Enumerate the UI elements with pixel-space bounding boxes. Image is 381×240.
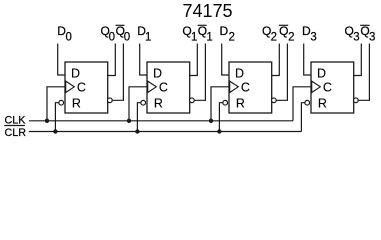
svg-text:CLK: CLK bbox=[5, 115, 27, 127]
inversion bubble U2 R input bbox=[141, 100, 146, 105]
junction CLR rail / U3 reset bbox=[217, 129, 221, 133]
wire Qbar2 output bbox=[276, 44, 287, 101]
svg-text:3: 3 bbox=[369, 31, 375, 43]
junction CLR rail / U1 reset bbox=[53, 129, 57, 133]
wire Q1 output bbox=[190, 44, 198, 76]
svg-text:R: R bbox=[154, 97, 163, 111]
wire CLK to U4 C pin bbox=[293, 87, 311, 121]
wire Q3 output bbox=[354, 44, 362, 76]
svg-text:D: D bbox=[220, 24, 229, 38]
D flip-flop U3 bbox=[229, 62, 272, 113]
node D2 label bbox=[220, 24, 235, 43]
wire CLR to U1 R pin bbox=[55, 103, 59, 132]
inversion bubble U4 Qbar output bbox=[354, 98, 359, 103]
svg-text:74175: 74175 bbox=[183, 1, 233, 21]
node Q1 label bbox=[182, 24, 197, 43]
wire CLK to U2 C pin bbox=[129, 87, 147, 121]
svg-text:R: R bbox=[236, 97, 245, 111]
svg-text:Q: Q bbox=[279, 24, 288, 38]
wire CLR to U2 R pin bbox=[137, 103, 141, 132]
D flip-flop U1 bbox=[65, 62, 108, 113]
wire D2 input bbox=[222, 44, 229, 76]
junction CLR rail / U2 reset bbox=[135, 129, 139, 133]
svg-text:2: 2 bbox=[288, 31, 294, 43]
wire CLR to U3 R pin bbox=[219, 103, 223, 132]
svg-text:0: 0 bbox=[65, 31, 71, 43]
node D1 label bbox=[137, 24, 151, 43]
node Q0 label bbox=[101, 24, 116, 43]
svg-text:C: C bbox=[241, 80, 250, 94]
inversion bubble U3 Qbar output bbox=[272, 98, 277, 103]
wire Q0 output bbox=[108, 44, 116, 76]
svg-text:2: 2 bbox=[271, 31, 277, 43]
wire D1 input bbox=[140, 44, 147, 76]
svg-text:CLR: CLR bbox=[5, 127, 27, 139]
wire D0 input bbox=[58, 44, 65, 76]
wire Qbar1 output bbox=[194, 44, 205, 101]
inversion bubble U4 R input bbox=[305, 100, 310, 105]
svg-text:C: C bbox=[159, 80, 168, 94]
svg-text:C: C bbox=[323, 80, 332, 94]
D flip-flop U2 bbox=[147, 62, 190, 113]
node Qbar0 label bbox=[116, 24, 131, 43]
wire Qbar3 output bbox=[358, 44, 369, 101]
node Qbar1 label bbox=[198, 24, 213, 43]
svg-text:1: 1 bbox=[145, 31, 151, 43]
node D3 label bbox=[302, 24, 317, 43]
node CLR label (active low) bbox=[4, 126, 26, 139]
svg-text:R: R bbox=[318, 97, 327, 111]
D flip-flop U4 bbox=[311, 62, 354, 113]
node D0 label bbox=[57, 24, 72, 43]
svg-text:D: D bbox=[317, 66, 326, 80]
wire CLR rail bbox=[29, 131, 302, 133]
inversion bubble U1 R input bbox=[59, 100, 64, 105]
svg-text:D: D bbox=[235, 66, 244, 80]
junction CLK rail / U3 clock bbox=[209, 119, 213, 123]
svg-text:R: R bbox=[72, 97, 81, 111]
svg-text:3: 3 bbox=[310, 31, 316, 43]
svg-text:2: 2 bbox=[229, 31, 235, 43]
wire D3 input bbox=[304, 44, 311, 76]
node Qbar3 label bbox=[360, 24, 375, 43]
wire CLR to U4 R pin bbox=[301, 103, 305, 132]
wire CLK to U1 C pin bbox=[47, 87, 65, 121]
node Q2 label bbox=[262, 24, 277, 43]
svg-text:0: 0 bbox=[109, 31, 115, 43]
svg-text:1: 1 bbox=[206, 31, 212, 43]
svg-text:D: D bbox=[71, 66, 80, 80]
junction CLK rail / U1 clock bbox=[45, 119, 49, 123]
svg-text:1: 1 bbox=[191, 31, 197, 43]
node Q3 label bbox=[345, 24, 360, 43]
wire CLK rail bbox=[29, 120, 293, 122]
junction CLK rail / U2 clock bbox=[127, 119, 131, 123]
wire CLK to U3 C pin bbox=[211, 87, 229, 121]
svg-text:C: C bbox=[77, 80, 86, 94]
wire Q2 output bbox=[272, 44, 280, 76]
node Qbar2 label bbox=[279, 24, 295, 43]
svg-text:3: 3 bbox=[353, 31, 359, 43]
inversion bubble U2 Qbar output bbox=[190, 98, 195, 103]
wire Qbar0 output bbox=[112, 44, 123, 101]
svg-text:D: D bbox=[153, 66, 162, 80]
inversion bubble U1 Qbar output bbox=[108, 98, 113, 103]
inversion bubble U3 R input bbox=[223, 100, 228, 105]
svg-text:0: 0 bbox=[124, 31, 130, 43]
